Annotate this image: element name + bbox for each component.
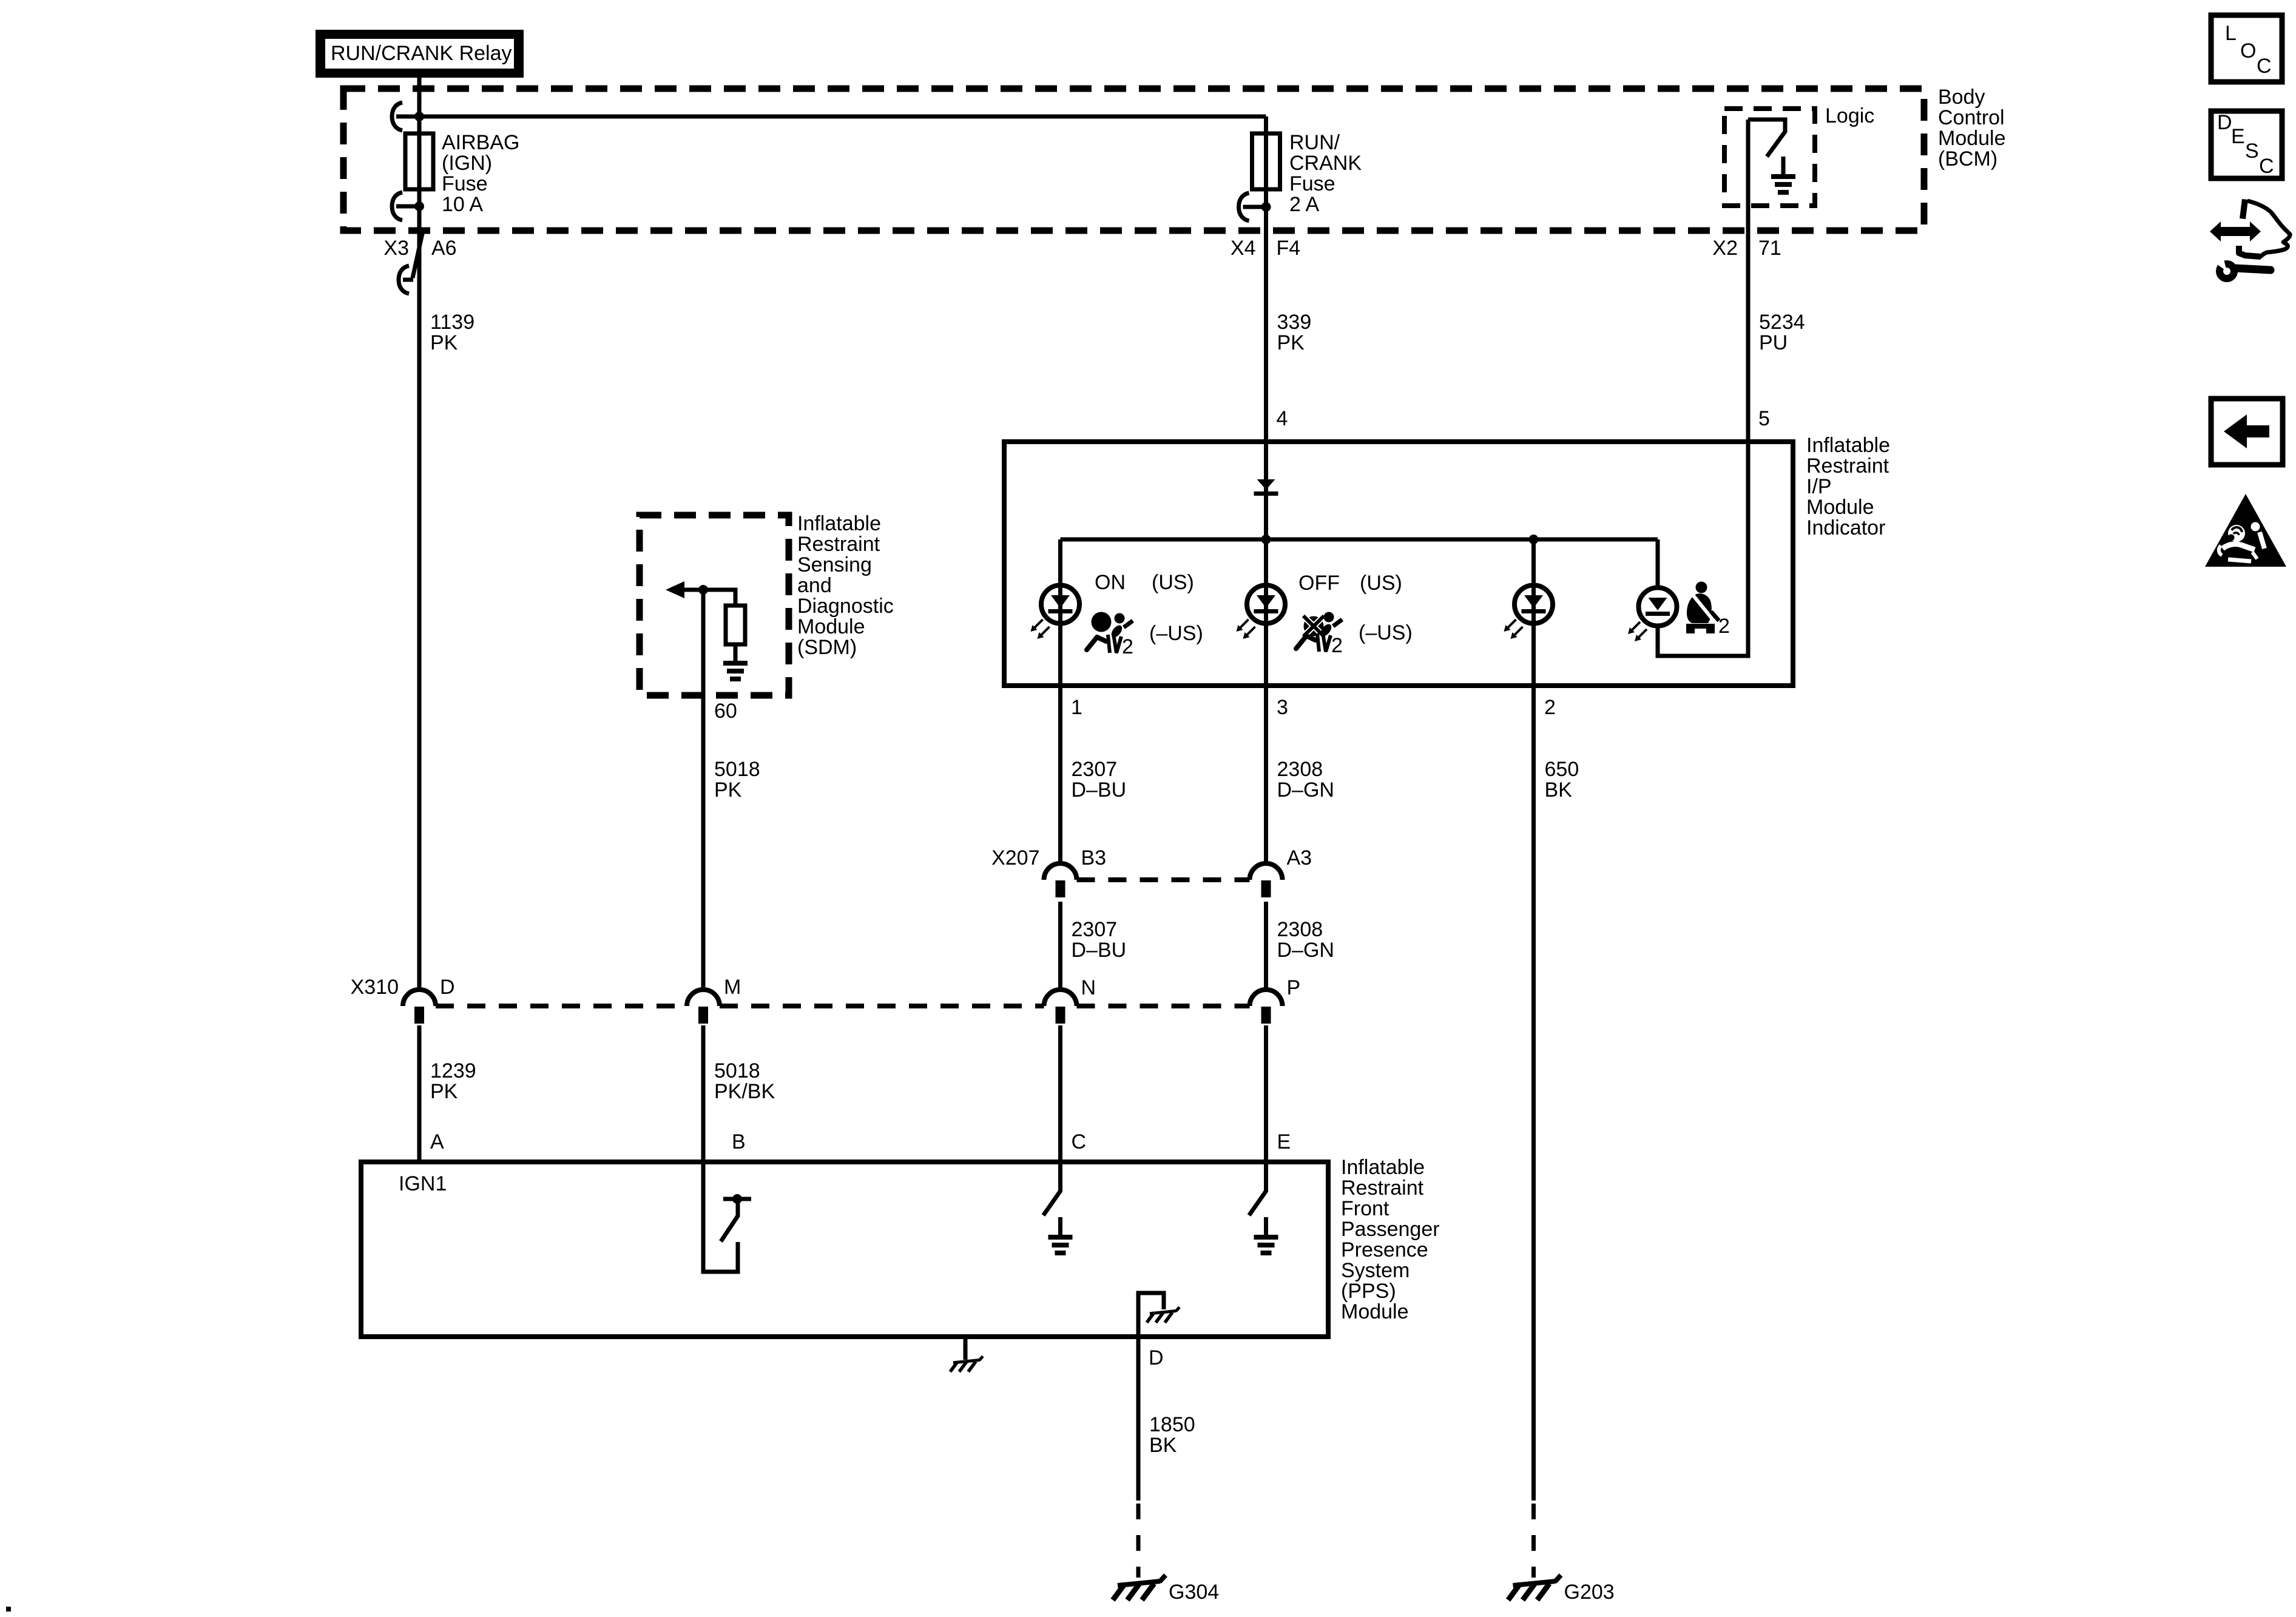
svg-text:2 A: 2 A	[1289, 193, 1319, 216]
svg-text:Sensing: Sensing	[797, 553, 872, 576]
svg-text:Body: Body	[1938, 86, 1985, 109]
svg-text:Restraint: Restraint	[1341, 1176, 1424, 1200]
svg-text:(US): (US)	[1152, 571, 1194, 594]
svg-text:D–GN: D–GN	[1277, 939, 1334, 962]
svg-text:Module: Module	[1806, 496, 1874, 519]
svg-text:Inflatable: Inflatable	[1341, 1156, 1425, 1179]
svg-text:4: 4	[1277, 407, 1288, 430]
svg-text:S: S	[2245, 140, 2259, 163]
svg-text:PK: PK	[430, 331, 458, 354]
svg-text:G203: G203	[1564, 1581, 1615, 1604]
svg-text:I/P: I/P	[1806, 475, 1832, 498]
svg-text:Module: Module	[797, 615, 865, 638]
svg-text:Diagnostic: Diagnostic	[797, 595, 894, 618]
svg-text:1: 1	[1071, 696, 1082, 719]
svg-text:2307: 2307	[1072, 758, 1118, 781]
svg-text:BK: BK	[1149, 1434, 1177, 1457]
svg-text:A6: A6	[431, 237, 457, 260]
svg-text:PK: PK	[430, 1080, 458, 1103]
svg-text:10 A: 10 A	[442, 193, 483, 216]
svg-text:System: System	[1341, 1259, 1410, 1282]
svg-text:D: D	[440, 976, 455, 999]
svg-text:Module: Module	[1341, 1300, 1409, 1323]
svg-text:3: 3	[1277, 696, 1288, 719]
svg-text:2: 2	[1544, 696, 1556, 719]
svg-text:X207: X207	[991, 846, 1039, 869]
svg-text:C: C	[2259, 155, 2274, 178]
svg-text:RUN/: RUN/	[1289, 131, 1340, 154]
svg-text:L: L	[2225, 22, 2237, 45]
svg-text:OFF: OFF	[1298, 572, 1340, 595]
svg-text:Restraint: Restraint	[797, 533, 880, 556]
svg-text:5018: 5018	[714, 758, 760, 781]
svg-text:PU: PU	[1759, 331, 1788, 354]
svg-text:A3: A3	[1287, 846, 1312, 869]
svg-text:D: D	[1149, 1346, 1164, 1369]
svg-text:E: E	[1277, 1130, 1291, 1153]
svg-text:E: E	[2231, 125, 2245, 148]
svg-text:D–BU: D–BU	[1072, 778, 1127, 802]
svg-text:Module: Module	[1938, 127, 2006, 150]
svg-text:Front: Front	[1341, 1197, 1389, 1220]
svg-text:Fuse: Fuse	[1289, 172, 1335, 195]
svg-text:RUN/CRANK Relay: RUN/CRANK Relay	[331, 42, 512, 65]
svg-text:P: P	[1287, 976, 1301, 999]
svg-text:71: 71	[1758, 237, 1781, 260]
svg-text:5018: 5018	[714, 1059, 760, 1082]
svg-text:(BCM): (BCM)	[1938, 147, 1997, 170]
svg-text:Control: Control	[1938, 106, 2005, 129]
svg-text:F4: F4	[1277, 237, 1301, 260]
svg-text:(PPS): (PPS)	[1341, 1280, 1396, 1303]
svg-text:1139: 1139	[430, 311, 474, 334]
svg-text:X4: X4	[1231, 237, 1256, 260]
svg-text:and: and	[797, 574, 832, 597]
svg-text:(SDM): (SDM)	[797, 636, 857, 659]
svg-text:Indicator: Indicator	[1806, 516, 1885, 539]
svg-text:(–US): (–US)	[1149, 622, 1203, 645]
svg-text:AIRBAG: AIRBAG	[442, 131, 519, 154]
svg-text:ON: ON	[1095, 571, 1126, 594]
svg-text:2: 2	[1718, 615, 1730, 638]
svg-text:B3: B3	[1081, 846, 1107, 869]
svg-text:1850: 1850	[1149, 1413, 1195, 1436]
svg-text:Passenger: Passenger	[1341, 1218, 1440, 1241]
svg-text:IGN1: IGN1	[399, 1172, 447, 1195]
svg-text:Fuse: Fuse	[442, 172, 488, 195]
svg-text:D–GN: D–GN	[1277, 778, 1334, 802]
svg-text:N: N	[1081, 976, 1096, 999]
svg-text:X3: X3	[383, 237, 409, 260]
svg-text:Presence: Presence	[1341, 1238, 1428, 1261]
svg-text:5234: 5234	[1759, 311, 1805, 334]
svg-text:2: 2	[1122, 635, 1133, 658]
svg-text:2308: 2308	[1277, 918, 1323, 941]
svg-text:BK: BK	[1545, 778, 1573, 802]
svg-text:2: 2	[1331, 634, 1343, 657]
svg-text:2308: 2308	[1277, 758, 1323, 781]
svg-text:C: C	[1072, 1130, 1087, 1153]
svg-text:G304: G304	[1169, 1581, 1219, 1604]
svg-text:C: C	[2257, 55, 2272, 78]
svg-text:339: 339	[1277, 311, 1312, 334]
svg-text:(US): (US)	[1360, 572, 1402, 595]
svg-text:B: B	[732, 1130, 746, 1153]
svg-text:X310: X310	[351, 976, 399, 999]
svg-text:O: O	[2240, 39, 2256, 62]
svg-text:Inflatable: Inflatable	[1806, 434, 1890, 457]
svg-text:Inflatable: Inflatable	[797, 512, 881, 535]
svg-text:5: 5	[1758, 407, 1770, 430]
svg-text:(IGN): (IGN)	[442, 152, 492, 175]
svg-text:2307: 2307	[1072, 918, 1118, 941]
svg-text:650: 650	[1545, 758, 1579, 781]
svg-text:D–BU: D–BU	[1072, 939, 1127, 962]
svg-text:PK/BK: PK/BK	[714, 1080, 775, 1103]
svg-text:M: M	[724, 976, 741, 999]
svg-text:Restraint: Restraint	[1806, 454, 1889, 478]
svg-text:PK: PK	[714, 778, 742, 802]
svg-text:D: D	[2217, 111, 2232, 134]
svg-text:CRANK: CRANK	[1289, 152, 1362, 175]
svg-text:PK: PK	[1277, 331, 1305, 354]
svg-text:(–US): (–US)	[1359, 621, 1413, 644]
svg-text:A: A	[430, 1130, 444, 1153]
svg-text:1239: 1239	[430, 1059, 476, 1082]
svg-text:60: 60	[714, 700, 737, 723]
svg-text:X2: X2	[1712, 237, 1738, 260]
svg-text:Logic: Logic	[1825, 104, 1874, 127]
